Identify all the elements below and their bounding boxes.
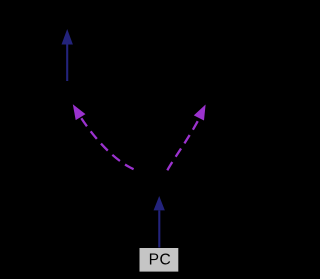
E4 arrowhead: [194, 105, 206, 121]
E1 arrowhead: [62, 29, 73, 45]
E3 arrowhead: [73, 104, 86, 120]
node PC box: [140, 248, 179, 272]
E2 arrowhead: [154, 196, 165, 210]
edge E3 dashed usage arrow (node M -> node L2, curved left): [73, 104, 134, 169]
wire E4 dashed curve: [167, 114, 201, 170]
edge E4 dashed usage arrow (node M -> node R2, right): [167, 105, 205, 171]
edge E1 solid inheritance arrow (upper left, node L2 -> node L1): [62, 29, 73, 81]
edge E2 solid arrow (PC -> node M): [154, 196, 165, 248]
wire E1 shaft: [66, 44, 68, 81]
wire E2 shaft: [158, 211, 160, 248]
svg-text:PC: PC: [149, 252, 172, 269]
wire E3 dashed curve: [76, 110, 134, 169]
